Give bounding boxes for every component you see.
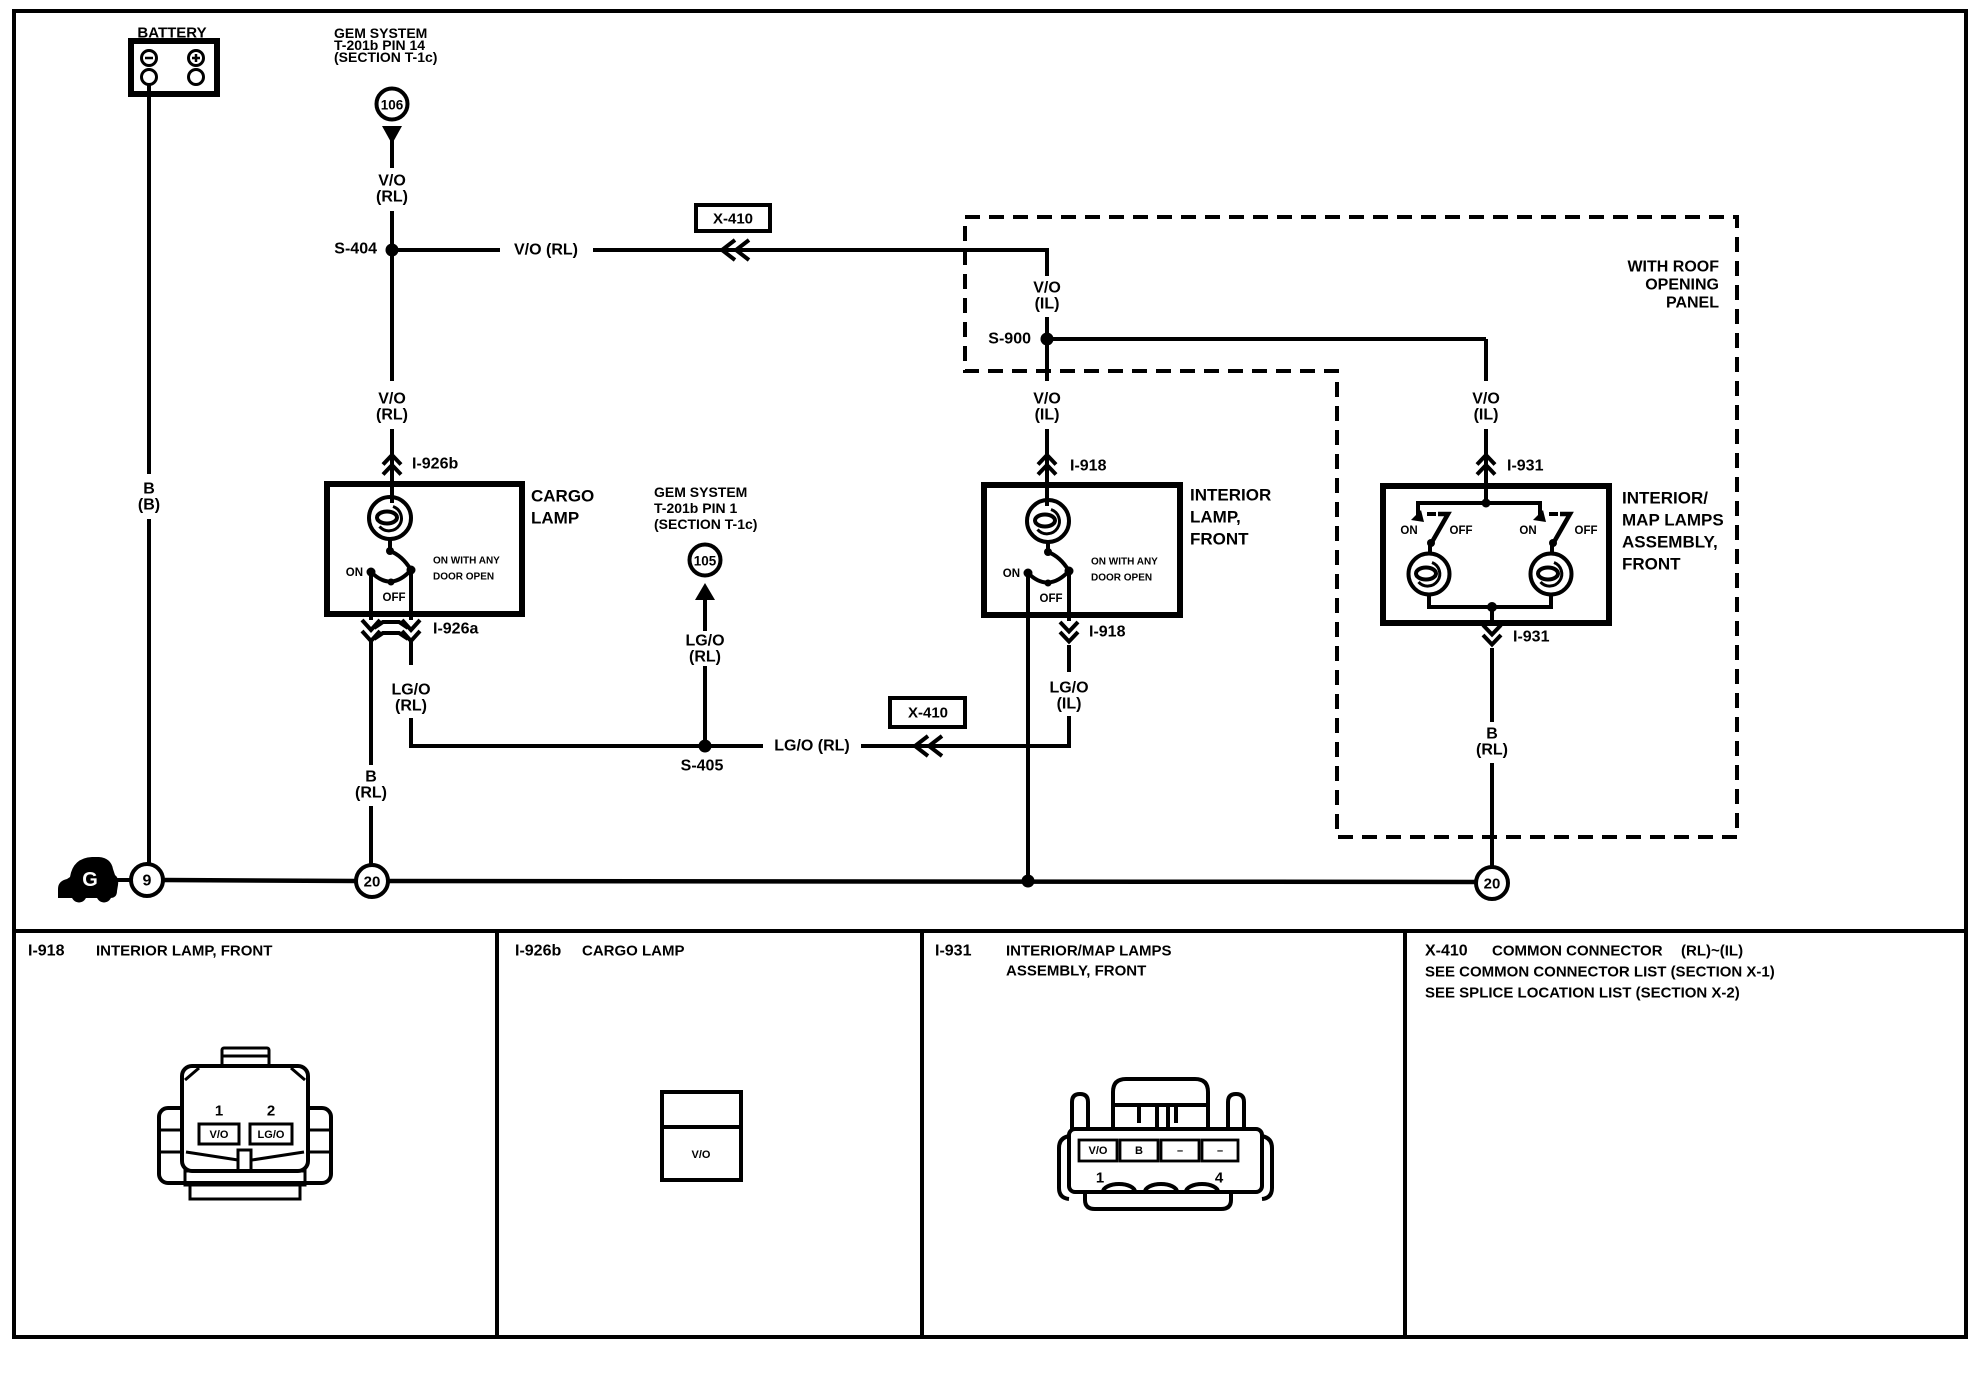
svg-text:GEM SYSTEM: GEM SYSTEM xyxy=(654,484,747,500)
arrow from 106 pointing down xyxy=(382,126,402,144)
map lamp switch right xyxy=(1533,510,1570,554)
svg-text:ASSEMBLY, FRONT: ASSEMBLY, FRONT xyxy=(1006,963,1146,980)
wire LG/O(IL) down xyxy=(1067,645,1071,672)
svg-text:(SECTION T-1c): (SECTION T-1c) xyxy=(334,49,437,65)
dashed region WITH ROOF OPENING PANEL xyxy=(965,217,1737,837)
wire B(RL) cargo left down (upper) xyxy=(369,641,373,765)
svg-text:1: 1 xyxy=(215,1103,223,1120)
svg-text:ON WITH ANY: ON WITH ANY xyxy=(433,556,500,567)
svg-text:ON: ON xyxy=(1519,525,1536,537)
svg-text:4: 4 xyxy=(1215,1170,1224,1187)
svg-text:LAMP: LAMP xyxy=(531,509,579,528)
map lamps bottom bus and junction xyxy=(1429,594,1551,623)
connector I-931 down chevrons xyxy=(1483,625,1501,645)
svg-text:V/O: V/O xyxy=(1033,391,1061,408)
svg-text:(RL): (RL) xyxy=(1476,742,1508,759)
wire V/O(RL) below 106 xyxy=(390,140,394,168)
svg-text:–: – xyxy=(1217,1145,1223,1157)
svg-text:(IL): (IL) xyxy=(1474,407,1499,424)
wire V/O(IL) right into I-931 xyxy=(1484,429,1488,487)
legend cell I-931 title xyxy=(935,943,1172,980)
wire V/O(IL) horizontal S-900 to right branch xyxy=(1047,337,1486,341)
svg-text:9: 9 xyxy=(143,873,152,890)
svg-text:CARGO LAMP: CARGO LAMP xyxy=(582,943,685,960)
map lamp bulb left xyxy=(1409,554,1450,595)
wire LG/O(IL) to horizontal corner xyxy=(1067,716,1071,748)
svg-text:106: 106 xyxy=(381,98,404,113)
svg-text:SEE COMMON CONNECTOR LIST (SEC: SEE COMMON CONNECTOR LIST (SECTION X-1) xyxy=(1425,964,1775,981)
svg-text:B: B xyxy=(143,481,155,498)
interior lamp switch xyxy=(1024,548,1074,587)
svg-text:FRONT: FRONT xyxy=(1190,530,1249,549)
wire cargo switch common down xyxy=(409,570,413,620)
connector I-926b up chevrons xyxy=(383,455,401,475)
svg-text:INTERIOR/MAP LAMPS: INTERIOR/MAP LAMPS xyxy=(1006,943,1172,960)
svg-text:DOOR OPEN: DOOR OPEN xyxy=(1091,573,1152,584)
svg-text:S-900: S-900 xyxy=(988,331,1031,348)
wire V/O(IL) below S-900 xyxy=(1045,345,1049,381)
connector circle 105 xyxy=(690,545,721,576)
svg-text:B: B xyxy=(1486,726,1498,743)
svg-text:INTERIOR/: INTERIOR/ xyxy=(1622,489,1708,508)
svg-text:ON: ON xyxy=(346,567,363,579)
wire LG/O(RL) cargo right to corner xyxy=(411,718,763,746)
wire B(RL) map down (lower) to node 20 xyxy=(1490,763,1494,868)
battery xyxy=(131,41,217,94)
svg-text:I-926a: I-926a xyxy=(433,621,478,638)
cargo lamp bulb xyxy=(369,484,411,552)
connector I-931 up chevrons xyxy=(1477,455,1495,475)
wire LG/O(RL) cargo right down xyxy=(409,641,413,665)
svg-text:(RL): (RL) xyxy=(376,189,408,206)
wire B(B) battery down (lower segment) to node 9 xyxy=(147,519,151,865)
wire V/O(IL) to S-900 xyxy=(1045,317,1049,345)
ground symbol G xyxy=(58,857,118,903)
svg-text:V/O: V/O xyxy=(1033,280,1061,297)
svg-text:LG/O: LG/O xyxy=(685,633,724,650)
svg-text:ON WITH ANY: ON WITH ANY xyxy=(1091,557,1158,568)
wire LG/O horizontal right segment xyxy=(861,744,1069,748)
svg-text:CARGO: CARGO xyxy=(531,487,594,506)
wire V/O(RL) horizontal left segment xyxy=(392,248,500,252)
svg-text:S-404: S-404 xyxy=(334,241,377,258)
svg-text:V/O: V/O xyxy=(378,173,406,190)
cargo lamp box xyxy=(327,484,522,614)
map lamp bulb right xyxy=(1531,554,1572,595)
wire V/O(RL) from S-404 down (upper) xyxy=(390,250,394,381)
svg-text:(IL): (IL) xyxy=(1057,696,1082,713)
svg-text:G: G xyxy=(82,869,98,891)
wire V/O(IL) into I-918 xyxy=(1045,429,1049,486)
svg-text:V/O: V/O xyxy=(210,1129,229,1141)
legend connector drawing I-918 xyxy=(159,1048,331,1199)
svg-text:(IL): (IL) xyxy=(1035,296,1060,313)
svg-text:S-405: S-405 xyxy=(681,758,724,775)
connector I-918 down chevrons xyxy=(1060,622,1078,642)
svg-text:ON: ON xyxy=(1003,568,1020,580)
map lamps box label xyxy=(1622,489,1724,574)
svg-text:X-410: X-410 xyxy=(713,211,753,228)
legend divider top xyxy=(14,929,1966,933)
GEM SYSTEM T-201b PIN 14 label xyxy=(334,25,437,65)
cargo lamp box label xyxy=(531,487,594,528)
svg-text:I-918: I-918 xyxy=(1070,458,1107,475)
svg-text:MAP LAMPS: MAP LAMPS xyxy=(1622,511,1724,530)
chevrons X-410 top (pointing left) xyxy=(722,240,749,260)
svg-text:V/O: V/O xyxy=(1089,1145,1108,1157)
svg-text:(SECTION T-1c): (SECTION T-1c) xyxy=(654,516,757,532)
svg-text:INTERIOR: INTERIOR xyxy=(1190,486,1271,505)
node circle 20 (right) xyxy=(1476,867,1508,899)
svg-text:ON: ON xyxy=(1400,525,1417,537)
wire V/O(IL) right branch corner down xyxy=(1484,339,1488,381)
legend cell I-918 title xyxy=(28,943,272,960)
wire ground to node 9 xyxy=(116,878,132,882)
svg-text:PANEL: PANEL xyxy=(1666,295,1719,312)
map lamps feed wire and junction xyxy=(1418,487,1540,515)
legend divider v3 xyxy=(1403,931,1407,1337)
svg-text:INTERIOR LAMP, FRONT: INTERIOR LAMP, FRONT xyxy=(96,943,272,960)
legend I-918 pin V/O box xyxy=(199,1124,239,1144)
legend connector drawing I-931 xyxy=(1059,1079,1272,1209)
interior lamp front box xyxy=(984,485,1180,615)
GEM SYSTEM T-201b PIN 1 label xyxy=(654,484,757,532)
legend divider v2 xyxy=(920,931,924,1337)
svg-text:20: 20 xyxy=(364,874,381,891)
cargo lamp switch xyxy=(367,547,416,586)
legend divider v1 xyxy=(495,931,499,1337)
wire interior ON terminal down to ground bus xyxy=(1026,573,1030,881)
wire B(RL) cargo left down (lower) to node 20 xyxy=(369,806,373,866)
svg-text:B: B xyxy=(1135,1145,1143,1157)
wire V/O(RL) to S-404 xyxy=(390,211,394,250)
svg-text:WITH ROOF: WITH ROOF xyxy=(1627,259,1719,276)
svg-text:(B): (B) xyxy=(138,497,160,514)
svg-text:I-926b: I-926b xyxy=(412,456,458,473)
node circle 20 (left) xyxy=(356,865,388,897)
svg-text:I-931: I-931 xyxy=(935,943,972,960)
connector box X-410 (bottom) xyxy=(890,698,965,727)
svg-text:(RL): (RL) xyxy=(355,785,387,802)
svg-text:(RL): (RL) xyxy=(395,698,427,715)
svg-text:20: 20 xyxy=(1484,876,1501,893)
svg-text:I-918: I-918 xyxy=(28,943,65,960)
svg-text:OFF: OFF xyxy=(1450,525,1473,537)
cargo lamp note ON WITH ANY DOOR OPEN xyxy=(433,556,500,583)
svg-text:(RL): (RL) xyxy=(376,407,408,424)
connector I-918 up chevrons xyxy=(1038,455,1056,475)
map lamp switch left xyxy=(1411,510,1448,554)
wire LG/O(RL) S-405 up xyxy=(703,666,707,746)
interior lamp bulb xyxy=(1027,486,1069,553)
svg-text:X-410: X-410 xyxy=(1425,943,1468,960)
svg-text:(RL)~(IL): (RL)~(IL) xyxy=(1681,943,1743,960)
svg-text:1: 1 xyxy=(1096,1170,1104,1187)
svg-text:LG/O: LG/O xyxy=(1049,680,1088,697)
wire interior common down xyxy=(1067,571,1071,621)
connector box X-410 (top) xyxy=(696,205,770,231)
svg-text:SEE SPLICE LOCATION LIST (SECT: SEE SPLICE LOCATION LIST (SECTION X-2) xyxy=(1425,985,1740,1002)
svg-text:V/O: V/O xyxy=(378,391,406,408)
svg-text:(IL): (IL) xyxy=(1035,407,1060,424)
svg-text:X-410: X-410 xyxy=(908,705,948,722)
svg-text:–: – xyxy=(1177,1145,1183,1157)
interior lamp box label xyxy=(1190,486,1271,549)
wire B(B) battery down (upper segment) xyxy=(147,85,151,474)
svg-text:LG/O (RL): LG/O (RL) xyxy=(774,738,850,755)
svg-text:COMMON CONNECTOR: COMMON CONNECTOR xyxy=(1492,943,1663,960)
svg-text:OFF: OFF xyxy=(1040,593,1063,605)
wire V/O(RL) into I-926b xyxy=(390,429,394,485)
connector I-926a chevrons and bracket xyxy=(362,620,420,641)
label WITH ROOF OPENING PANEL xyxy=(1627,259,1719,312)
legend I-931 pin labels xyxy=(1089,1145,1224,1157)
svg-text:LG/O: LG/O xyxy=(258,1129,285,1141)
svg-text:OFF: OFF xyxy=(1575,525,1598,537)
legend I-918 pin LG/O box xyxy=(250,1124,292,1144)
interior lamp note ON WITH ANY DOOR OPEN xyxy=(1091,557,1158,584)
legend cell X-410 title xyxy=(1425,943,1775,1002)
legend cell I-926b title xyxy=(515,943,685,960)
svg-text:I-931: I-931 xyxy=(1507,458,1544,475)
svg-text:I-926b: I-926b xyxy=(515,943,561,960)
junction interior ON wire on bus xyxy=(1022,875,1035,888)
svg-text:DOOR OPEN: DOOR OPEN xyxy=(433,572,494,583)
legend I-931 pin boxes xyxy=(1079,1140,1238,1161)
svg-text:I-931: I-931 xyxy=(1513,629,1550,646)
wire cargo switch ON terminal down xyxy=(369,572,373,620)
svg-text:I-918: I-918 xyxy=(1089,624,1126,641)
ground bus wire 9 to 20 xyxy=(163,880,356,881)
svg-text:LAMP,: LAMP, xyxy=(1190,508,1241,527)
svg-text:V/O: V/O xyxy=(692,1149,711,1161)
node circle 9 xyxy=(131,864,163,896)
svg-text:B: B xyxy=(365,769,377,786)
svg-text:2: 2 xyxy=(267,1103,275,1120)
wire V/O(RL) horizontal right segment xyxy=(593,248,1047,252)
chevrons X-410 bottom (pointing left) xyxy=(915,736,942,756)
svg-text:(RL): (RL) xyxy=(689,649,721,666)
svg-text:OPENING: OPENING xyxy=(1645,277,1719,294)
svg-text:LG/O: LG/O xyxy=(391,682,430,699)
interior/map lamps assembly box xyxy=(1383,486,1609,623)
legend connector drawing I-926b xyxy=(662,1092,741,1180)
svg-text:V/O: V/O xyxy=(1472,391,1500,408)
junction S-900 xyxy=(1041,333,1054,346)
junction S-404 xyxy=(386,244,399,257)
arrow to circle 105 pointing up xyxy=(695,583,715,631)
svg-text:T-201b PIN 1: T-201b PIN 1 xyxy=(654,500,737,516)
ground bus wire 20 to 20 xyxy=(388,881,1476,882)
svg-text:ASSEMBLY,: ASSEMBLY, xyxy=(1622,533,1718,552)
junction S-405 xyxy=(699,740,712,753)
svg-text:105: 105 xyxy=(694,554,717,569)
wire V/O(IL) corner down from horizontal xyxy=(1045,248,1049,276)
svg-text:V/O (RL): V/O (RL) xyxy=(514,242,578,259)
wire B(RL) map lamps down (upper) xyxy=(1490,648,1494,722)
connector circle 106 xyxy=(377,89,408,120)
svg-text:FRONT: FRONT xyxy=(1622,555,1681,574)
svg-text:OFF: OFF xyxy=(383,592,406,604)
